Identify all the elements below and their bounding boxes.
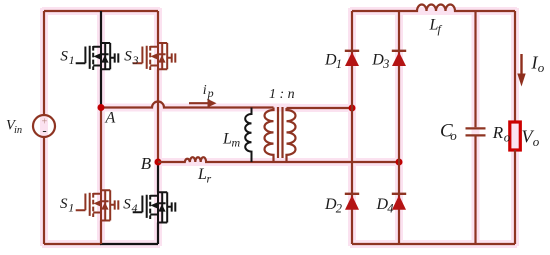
- label S3: [124, 49, 138, 68]
- label Vo: [522, 127, 540, 150]
- diode D3: [392, 51, 406, 66]
- svg-text:o: o: [450, 128, 457, 143]
- label D4: [376, 196, 394, 216]
- transformer primary winding: [265, 108, 274, 163]
- node A dot: [98, 104, 105, 111]
- wire bottom rail left red: [44, 243, 101, 245]
- svg-text:3: 3: [132, 53, 139, 67]
- svg-text:o: o: [504, 130, 511, 145]
- label Co: [440, 121, 457, 143]
- label ip: [203, 83, 214, 100]
- wire leg1 S2 source to rail red: [100, 221, 102, 245]
- svg-text:o: o: [538, 60, 545, 75]
- wire node A row with hop over leg2: [101, 102, 274, 108]
- transformer secondary winding: [287, 108, 296, 162]
- wire node B row with inductor Lr: [158, 157, 287, 162]
- svg-text:f: f: [438, 22, 443, 36]
- svg-text:1: 1: [336, 57, 342, 71]
- wire top rail input bridge: [44, 10, 158, 12]
- wire leg2 drain of S3 red: [157, 11, 159, 44]
- current arrow Io: [517, 54, 525, 87]
- transformer core: [278, 107, 283, 158]
- label Io: [531, 53, 545, 75]
- label S1 bottom: [60, 196, 74, 215]
- wire secondary bottom to rectifier: [287, 161, 400, 163]
- label S1 top: [60, 49, 74, 68]
- wire right edge bottom: [514, 150, 516, 244]
- wire leg2 node B to S4 black: [157, 162, 159, 193]
- node junction secondary bottom: [396, 159, 403, 166]
- svg-text:S: S: [123, 196, 131, 212]
- wire diode column D3 D4: [398, 11, 400, 244]
- svg-text:2: 2: [336, 201, 342, 215]
- diode D1: [345, 51, 359, 66]
- label Lf: [429, 17, 443, 37]
- inductor Lm black: [245, 108, 251, 163]
- label Lm: [222, 131, 241, 150]
- svg-text:1 : n: 1 : n: [269, 87, 295, 102]
- svg-text:A: A: [105, 110, 116, 127]
- wire leg1 drain of S1 black: [100, 11, 102, 44]
- svg-text:in: in: [14, 125, 22, 136]
- transistor S4 bottom-right MOSFET: [133, 192, 176, 223]
- wire leg1 S1 source to node A black: [100, 69, 102, 105]
- wire rectifier top rail with inductor Lf: [352, 5, 515, 12]
- svg-text:L: L: [197, 166, 207, 183]
- svg-text:4: 4: [387, 201, 393, 215]
- label Lr: [197, 166, 212, 185]
- node junction secondary top: [349, 105, 356, 112]
- svg-text:R: R: [492, 123, 504, 142]
- label D2: [324, 196, 342, 216]
- svg-text:1: 1: [69, 53, 75, 67]
- capacitor Co: [466, 128, 486, 135]
- label Ro: [492, 123, 511, 145]
- svg-text:4: 4: [132, 201, 138, 215]
- wire bottom rail black section: [100, 243, 158, 245]
- svg-text:1: 1: [68, 201, 74, 215]
- wire right edge top: [514, 11, 516, 122]
- diode D4: [392, 194, 406, 210]
- wire left vertical Vin top: [43, 11, 45, 115]
- svg-text:S: S: [60, 196, 68, 212]
- svg-text:S: S: [60, 49, 68, 65]
- svg-text:B: B: [141, 154, 152, 173]
- svg-text:3: 3: [382, 57, 389, 71]
- svg-text:i: i: [203, 83, 207, 98]
- label S4: [123, 196, 137, 215]
- wire diode column D1 D2: [351, 11, 353, 244]
- wire left vertical Vin bottom: [43, 137, 45, 244]
- transistor S3 top-right MOSFET: [133, 43, 176, 71]
- wire rectifier bottom rail: [352, 243, 515, 245]
- svg-text:S: S: [124, 49, 132, 65]
- wire leg2 S4 source to rail black: [157, 223, 159, 245]
- svg-text:r: r: [207, 172, 212, 186]
- svg-text:m: m: [232, 136, 241, 150]
- wire capacitor column bottom: [474, 137, 476, 245]
- wire leg2 S3 source to node B red: [157, 69, 159, 162]
- voltage source Vin: [33, 115, 55, 137]
- svg-text:L: L: [222, 131, 232, 148]
- svg-text:p: p: [207, 86, 214, 100]
- transistor S1 top-left MOSFET: [76, 43, 119, 71]
- label Vin: [6, 118, 22, 137]
- node B dot: [155, 159, 162, 166]
- wire capacitor column top: [474, 11, 476, 127]
- diode D2: [345, 194, 359, 210]
- wire secondary top to rectifier: [287, 107, 353, 109]
- current arrow ip: [189, 99, 217, 108]
- svg-text:-: -: [42, 123, 46, 138]
- label D1: [324, 52, 342, 72]
- resistor Ro: [510, 122, 521, 150]
- label D3: [371, 52, 389, 72]
- transistor S2 bottom-left MOSFET labelled S1: [76, 190, 119, 221]
- wire leg1 node A to S2 red: [100, 106, 102, 191]
- svg-text:o: o: [533, 134, 540, 149]
